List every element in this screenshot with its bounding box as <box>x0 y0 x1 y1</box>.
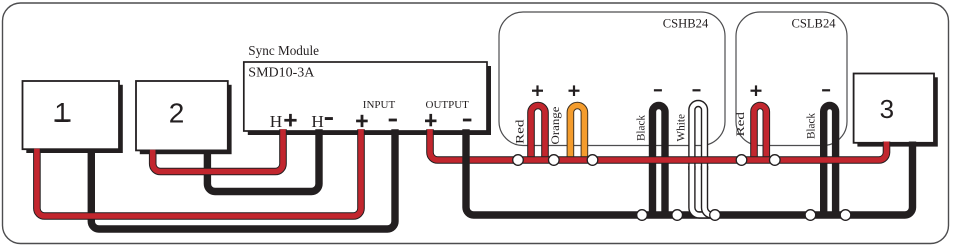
svg-text:Sync Module: Sync Module <box>248 43 319 58</box>
svg-text:Red: Red <box>515 119 527 144</box>
svg-text:2: 2 <box>169 98 185 129</box>
svg-text:Black: Black <box>806 113 818 139</box>
svg-text:Orange: Orange <box>550 107 562 145</box>
svg-text:Red: Red <box>735 112 747 137</box>
svg-text:CSHB24: CSHB24 <box>663 17 709 31</box>
svg-text:Black: Black <box>636 115 648 141</box>
svg-text:1: 1 <box>54 97 70 128</box>
svg-text:White: White <box>676 114 688 142</box>
svg-text:INPUT: INPUT <box>363 99 396 111</box>
svg-text:CSLB24: CSLB24 <box>791 17 836 31</box>
svg-text:H: H <box>311 112 323 131</box>
svg-text:H: H <box>270 112 282 131</box>
svg-text:OUTPUT: OUTPUT <box>426 99 470 111</box>
svg-text:3: 3 <box>880 94 894 124</box>
svg-text:SMD10-3A: SMD10-3A <box>248 66 315 81</box>
